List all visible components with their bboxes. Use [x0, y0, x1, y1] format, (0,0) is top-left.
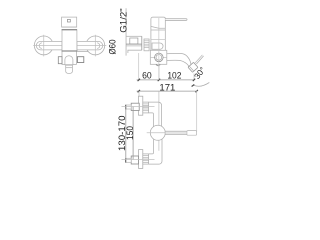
top stub end dark: [125, 105, 127, 110]
lever top cap rectangle: [62, 17, 77, 27]
body (side): [151, 17, 165, 50]
left small outlet rect: [58, 57, 62, 64]
top union centerline: [122, 106, 155, 108]
union nut stadium left: [36, 41, 62, 50]
aerator joint lines: [66, 64, 73, 66]
flange circle right: [86, 36, 105, 55]
body rectangle: [62, 30, 77, 51]
svg-text:171: 171: [159, 82, 175, 93]
body circle (from below): [150, 125, 165, 140]
lower block: [62, 51, 76, 64]
bottom outlet V: [156, 64, 160, 66]
ring line: [151, 29, 165, 31]
ext segment dim171 to flange: [138, 91, 140, 96]
tick at center: [158, 79, 160, 81]
tick 171 left: [138, 90, 140, 92]
svg-text:150: 150: [125, 126, 136, 140]
spout band (from below): [165, 131, 187, 134]
dark ring line body top: [62, 29, 77, 31]
diverter knurled circle: [155, 53, 164, 62]
knurled nut with hatch: [144, 39, 149, 51]
circle centerline horizontal: [147, 132, 167, 134]
cap joint tilted line: [151, 26, 165, 28]
cap joint line: [62, 26, 77, 28]
bottom stub end dark: [125, 158, 127, 163]
lever bar: [165, 19, 187, 21]
aerator tilted square: [188, 62, 198, 72]
body centerline (side view): [158, 18, 160, 66]
bottom union elbow outer: [149, 139, 162, 164]
fitting front face vertical: [141, 36, 143, 50]
spout aerator cylinder below: [66, 65, 73, 74]
dim line 150: [132, 107, 134, 160]
flange circle left: [34, 36, 53, 55]
escutcheon rect: [130, 38, 138, 44]
lower block (side): [150, 50, 167, 64]
bottom union flange: [139, 150, 143, 169]
top union nut: [131, 103, 139, 110]
dimension line 171: [137, 90, 197, 92]
top union elbow inner: [149, 113, 154, 127]
check valve housing inside body: [152, 43, 163, 49]
dim line 130-170: [125, 107, 127, 160]
dimension line 60/102: [137, 79, 194, 81]
spout tube bottom line: [167, 60, 189, 66]
top union elbow outer: [149, 102, 162, 126]
wall fitting top line: [126, 35, 142, 37]
union pipe lines: [126, 43, 142, 45]
body bottom dark line: [62, 50, 78, 52]
aerator from below: [187, 131, 197, 136]
svg-text:102: 102: [167, 70, 181, 81]
centerline horizontal through circles: [33, 44, 106, 46]
bottom union elbow inner: [149, 139, 154, 154]
face extension double line: [196, 56, 203, 64]
30 degree arc: [194, 83, 210, 87]
top union knurl: [143, 102, 149, 113]
svg-text:G1/2": G1/2": [118, 8, 128, 33]
bottom union pipe stub: [126, 158, 132, 162]
ext line wall plane: [138, 53, 140, 81]
tick 171 right: [196, 90, 198, 92]
block mid line: [150, 56, 167, 58]
svg-text:Ø60: Ø60: [108, 40, 118, 55]
centerline vertical right circle: [94, 35, 96, 57]
tick at wall: [138, 79, 140, 81]
wall line: [125, 8, 127, 55]
ext line spout tip (dim1): [193, 74, 195, 81]
centerline vertical left circle: [43, 35, 45, 57]
nut chamfer arc right: [97, 43, 100, 49]
nut chamfer arc left: [39, 43, 42, 49]
spout dome (end-on): [65, 56, 73, 65]
tick at tip: [193, 79, 195, 81]
ext line body center: [158, 66, 160, 81]
svg-text:60: 60: [142, 70, 152, 81]
body centerline vertical: [158, 66, 160, 80]
small screw square on cap: [68, 19, 71, 22]
ext line aerator corner for 171: [196, 91, 198, 132]
top union pipe stub: [126, 105, 132, 109]
bottom union nut: [131, 156, 138, 164]
fitting bottom line: [128, 50, 142, 53]
union nut stadium right: [77, 41, 103, 50]
arc arrow: [192, 85, 195, 87]
bottom union knurl: [143, 154, 149, 164]
spout tube top line: [167, 53, 191, 64]
shoulder line to right circle: [77, 51, 88, 53]
top union flange: [139, 96, 143, 115]
cartridge line: [151, 38, 165, 40]
right diverter square: [77, 57, 83, 63]
bottom union centerline: [122, 158, 155, 160]
